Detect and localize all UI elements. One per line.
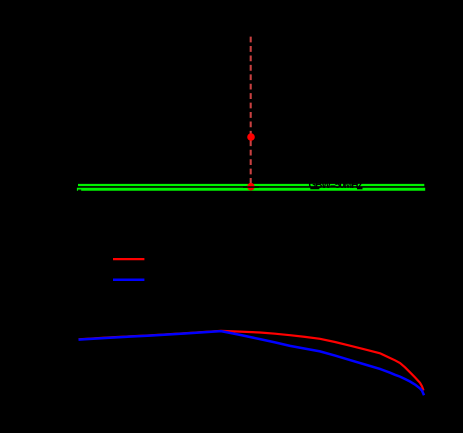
tick label cut lower-right [357,187,363,189]
legend blue line sample [113,278,144,281]
legend red line sample [113,258,144,260]
node: red dot on curve [247,133,255,141]
wire: black axis spine over dot [243,186,259,188]
tick label cut at line left end [78,190,81,191]
wire: red dashed vertical marker line [250,37,252,185]
wire: blue curve (gain with load) [79,331,425,395]
green line: GBW spec lower [77,188,425,191]
tick label cut lower-left [310,187,319,189]
green line: GBW spec upper [78,184,424,186]
wire: red curve (gain without load) [79,331,424,391]
node: red dot on GBW line [247,183,255,191]
